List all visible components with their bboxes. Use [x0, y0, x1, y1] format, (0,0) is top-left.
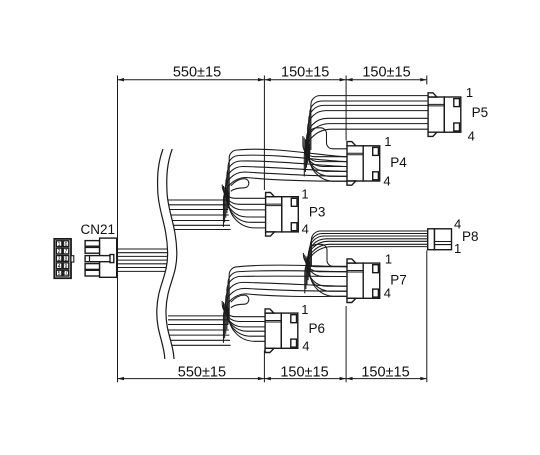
svg-text:1: 1	[384, 134, 391, 149]
connector P8	[428, 229, 452, 250]
extension line at P3 (top)	[263, 76, 265, 191]
extension line below P8	[426, 251, 428, 383]
svg-text:1: 1	[301, 187, 308, 202]
connector P5	[428, 93, 461, 137]
wires rising from P7 breakout to far-connector run	[305, 231, 429, 293]
connector P4	[347, 142, 380, 186]
wire bundle from CN21	[117, 249, 172, 271]
connector P6	[265, 309, 298, 353]
svg-text:1: 1	[385, 251, 392, 266]
svg-text:1: 1	[301, 302, 308, 317]
svg-text:4: 4	[383, 174, 390, 189]
wire bundle to P6 breakout	[168, 316, 231, 345]
svg-text:4: 4	[454, 217, 461, 232]
svg-text:550±15: 550±15	[173, 65, 221, 81]
svg-text:2: 2	[58, 249, 61, 255]
svg-text:150±15: 150±15	[361, 365, 409, 381]
wires rising from P4 breakout to far-connector run	[304, 96, 428, 177]
service-loop fold at P6 breakout	[231, 295, 249, 308]
svg-text:P4: P4	[390, 155, 407, 170]
svg-text:1: 1	[58, 242, 61, 248]
wires dropping into P6	[222, 301, 265, 341]
svg-text:5: 5	[58, 271, 61, 277]
extension line below P7	[345, 306, 347, 382]
svg-text:10: 10	[63, 271, 69, 277]
connector CN21 pin-face view	[54, 239, 74, 278]
svg-text:4: 4	[302, 339, 309, 354]
svg-text:8: 8	[65, 257, 68, 263]
service-loop fold at P3 breakout	[231, 179, 249, 192]
connector P7	[347, 259, 380, 303]
svg-text:3: 3	[58, 257, 61, 263]
svg-text:150±15: 150±15	[280, 365, 328, 381]
cable break (length abbreviated)	[157, 149, 177, 359]
wire stepping down into top of P7	[309, 244, 348, 274]
svg-text:4: 4	[384, 286, 391, 301]
wires dropping into P3	[222, 185, 265, 228]
wires dropping into P4	[303, 136, 347, 181]
svg-text:P6: P6	[309, 321, 326, 336]
svg-text:150±15: 150±15	[362, 65, 410, 81]
svg-text:4: 4	[468, 129, 475, 144]
extension line below P6	[263, 351, 265, 383]
svg-text:7: 7	[65, 249, 68, 255]
svg-text:9: 9	[65, 264, 68, 270]
wires dropping into P7	[303, 253, 347, 296]
wires rising from P6 breakout to next-connector run	[223, 265, 347, 343]
svg-text:CN21: CN21	[81, 222, 116, 237]
svg-text:150±15: 150±15	[281, 65, 329, 81]
svg-text:4: 4	[58, 264, 61, 270]
wire bundle to P3 breakout	[168, 200, 231, 230]
top dimension line	[118, 79, 427, 81]
svg-text:P8: P8	[462, 229, 479, 244]
extension line at P5 (top)	[426, 76, 428, 85]
wires rising from P3 breakout to next-connector run	[223, 149, 347, 227]
extension line at P4 (top)	[345, 76, 347, 141]
connector CN21 side view	[85, 238, 117, 277]
svg-text:550±15: 550±15	[178, 365, 226, 381]
wire stepping down into top of P4	[308, 128, 347, 157]
svg-text:P5: P5	[472, 105, 489, 120]
svg-text:1: 1	[466, 85, 473, 100]
svg-text:P3: P3	[309, 205, 326, 220]
svg-text:1: 1	[454, 241, 461, 256]
svg-text:6: 6	[65, 242, 68, 248]
svg-text:4: 4	[302, 222, 309, 237]
bottom dimension line	[118, 378, 427, 380]
extension line at CN21	[117, 76, 119, 383]
svg-text:P7: P7	[390, 272, 407, 287]
connector P3	[266, 193, 299, 237]
